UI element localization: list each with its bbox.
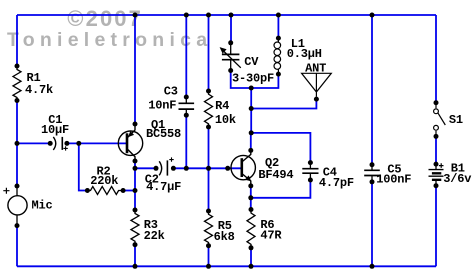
svg-text:47R: 47R — [260, 229, 282, 243]
terminal L1 bottom — [276, 72, 281, 77]
junction R2/R3 — [133, 188, 138, 193]
junction top rail CV — [229, 13, 234, 18]
wire Q1 emitter to top rail — [134, 15, 136, 124]
capacitor C1 — [53, 137, 68, 151]
terminal Q2 emitter — [248, 183, 253, 188]
terminal C1 right — [64, 141, 69, 146]
terminal L1 top — [276, 36, 281, 41]
svg-text:4.7pF: 4.7pF — [319, 176, 354, 190]
wire bottom-left rise to Mic — [16, 226, 18, 267]
wire B1 to bottom rail — [435, 186, 437, 267]
resistor R1 — [13, 66, 21, 101]
wire R4 bottom through node to R5 — [208, 127, 210, 211]
wire R5 to bottom rail — [208, 246, 210, 267]
terminal Mic top — [15, 184, 20, 189]
svg-text:100nF: 100nF — [376, 173, 411, 187]
resistor R4 — [205, 91, 213, 127]
svg-text:4.7k: 4.7k — [25, 83, 53, 97]
wire CV top from rail — [230, 15, 232, 43]
terminal Mic bottom — [15, 223, 20, 228]
junction C1 node — [15, 141, 20, 146]
terminal B1 plus — [434, 162, 439, 167]
terminal R2 left — [85, 188, 90, 193]
terminal Q2 base — [225, 166, 230, 171]
capacitor C5 — [364, 165, 380, 182]
variable capacitor CV — [220, 43, 241, 71]
junction Q1/C2 — [133, 166, 138, 171]
terminal R3 top — [133, 208, 138, 213]
junction R2 tap — [76, 141, 81, 146]
battery B1 — [429, 163, 444, 185]
svg-text:10k: 10k — [215, 113, 236, 127]
terminal R5 bottom — [206, 243, 211, 248]
junction top rail L1 — [276, 13, 281, 18]
svg-text:CV: CV — [244, 55, 259, 69]
terminal C5 top — [370, 162, 375, 167]
svg-text:ANT: ANT — [305, 61, 326, 75]
svg-text:220k: 220k — [90, 174, 118, 188]
terminal R1 top — [15, 64, 20, 69]
wire Q2 emitter down to R6 — [250, 186, 252, 210]
terminal C2 right — [171, 166, 176, 171]
terminal R4 bottom — [206, 125, 211, 130]
junction collector node — [249, 130, 254, 135]
wire tank bottom CV to L1 — [231, 71, 279, 89]
svg-text:10µF: 10µF — [41, 123, 69, 137]
junction C2/C3 — [184, 166, 189, 171]
junction bottom rail R6 — [249, 264, 254, 269]
terminal C4 top — [308, 160, 313, 165]
terminal Q1 collector — [133, 159, 138, 164]
wire ground bottom rail — [17, 265, 436, 267]
wire C2 left lead — [135, 167, 156, 169]
svg-text:©2007: ©2007 — [67, 6, 143, 31]
capacitor C2 — [159, 157, 174, 175]
wire C1 node to R1 — [16, 101, 18, 144]
terminal C2 left — [154, 166, 159, 171]
terminal C3 top — [184, 95, 189, 100]
capacitor C4 — [302, 163, 318, 180]
terminal R3 bottom — [133, 242, 138, 247]
resistor R6 — [247, 210, 255, 248]
wire R2 right to Q1 collector line — [123, 190, 135, 192]
wire L1 top from rail — [277, 15, 279, 38]
junction top rail C5 — [370, 13, 375, 18]
wire C3 top from rail — [185, 15, 187, 97]
wire tank node down to collector node — [250, 88, 252, 133]
wire V+ top rail — [17, 14, 436, 16]
terminal R1 bottom — [15, 98, 20, 103]
terminal C3 bottom — [184, 113, 189, 118]
wire R3 to bottom rail — [134, 245, 136, 267]
wire collector node to C4 top — [251, 133, 310, 163]
wire antenna feed — [251, 99, 316, 108]
resistor R3 — [131, 210, 139, 245]
terminal antenna — [314, 97, 319, 102]
terminal R2 right — [121, 188, 126, 193]
terminal S1 top — [434, 100, 439, 105]
junction top rail C3 — [184, 13, 189, 18]
wire Q1 collector down to R3 — [134, 161, 136, 210]
switch S1 — [434, 104, 446, 135]
wire R1 to top rail — [16, 15, 18, 66]
svg-text:S1: S1 — [449, 113, 463, 127]
svg-text:4.7µF: 4.7µF — [146, 180, 181, 194]
svg-text:0.3µH: 0.3µH — [287, 47, 322, 61]
terminal CV bottom — [228, 68, 233, 73]
terminal B1 minus — [434, 183, 439, 188]
svg-text:22k: 22k — [144, 229, 165, 243]
junction emitter/C4 — [248, 195, 253, 200]
junction bottom rail R5 — [206, 264, 211, 269]
terminal Q2 collector — [248, 148, 253, 153]
terminal C5 bottom — [370, 179, 375, 184]
terminal R4 top — [206, 89, 211, 94]
junction bottom rail C5 — [370, 264, 375, 269]
resistor R2 — [87, 187, 123, 195]
svg-text:Mic: Mic — [32, 199, 53, 213]
terminal Q1 emitter — [133, 122, 138, 127]
terminal S1 bottom — [434, 134, 439, 139]
terminal C4 bottom — [308, 178, 313, 183]
junction antenna tee — [249, 106, 254, 111]
transistor Q2 — [231, 150, 255, 186]
junction top rail Q1 — [133, 13, 138, 18]
terminal R5 top — [206, 209, 211, 214]
wire S1 to B1 — [435, 136, 437, 164]
wire Mic to C1 node — [16, 143, 18, 186]
capacitor C3 — [179, 97, 195, 115]
svg-text:R4: R4 — [215, 99, 229, 113]
svg-text:BC558: BC558 — [146, 127, 181, 141]
wire C1 right to Q1 base — [67, 142, 126, 144]
svg-text:C3: C3 — [164, 85, 178, 99]
terminal C1 left — [48, 141, 53, 146]
microphone Mic — [3, 188, 27, 225]
junction bottom rail R3 — [133, 264, 138, 269]
svg-text:6k8: 6k8 — [214, 230, 235, 244]
wire C1 left lead — [17, 142, 50, 144]
antenna ANT — [302, 73, 332, 97]
wire C5 bottom to rail — [371, 182, 373, 266]
wire R6 to bottom rail — [250, 248, 252, 266]
transistor Q1 — [118, 124, 142, 161]
wire node to R2 — [79, 143, 88, 190]
wire C5 top from rail — [371, 15, 373, 165]
svg-text:10nF: 10nF — [148, 99, 176, 113]
resistor R5 — [205, 211, 213, 246]
inductor L1 — [274, 38, 281, 74]
junction tank bottom — [249, 86, 254, 91]
terminal CV top — [228, 40, 233, 45]
svg-text:BF494: BF494 — [258, 168, 293, 182]
wire C2 right to Q2 base — [173, 167, 240, 169]
junction top rail R4 — [206, 13, 211, 18]
svg-text:3/6v: 3/6v — [443, 172, 471, 186]
wire C3 bottom to C2 node — [185, 115, 187, 168]
junction C2/R4R5 — [206, 166, 211, 171]
wire emitter node to C4 bottom — [251, 180, 311, 198]
svg-text:3-30pF: 3-30pF — [232, 72, 274, 86]
svg-text:Tonieletronica: Tonieletronica — [7, 29, 212, 51]
wire Q2 collector stub — [250, 133, 252, 151]
wire right rail down to S1 — [435, 15, 437, 103]
terminal R6 top — [249, 207, 254, 212]
terminal R6 bottom — [249, 245, 254, 250]
wire R4 top from rail — [208, 15, 210, 91]
